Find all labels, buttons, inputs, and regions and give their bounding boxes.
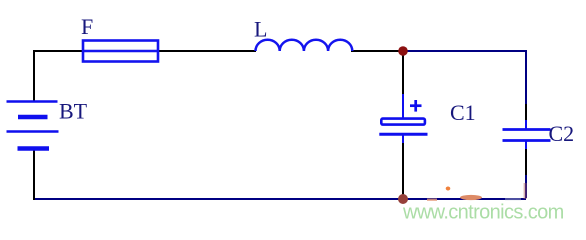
wire C2 to bottom-right corner [525, 149, 527, 177]
capacitor C1 (electrolytic) [379, 100, 427, 134]
wire C1 bottom lead (blue) [402, 135, 404, 145]
wire C1 to node B [402, 143, 404, 199]
wire C2 top lead [525, 120, 527, 129]
wire node A down to C1 [402, 53, 404, 96]
svg-text:BT: BT [59, 99, 88, 124]
wire C1 top lead (blue) [402, 94, 404, 118]
fuse F [82, 41, 159, 62]
wire top-left horizontal [34, 51, 82, 101]
artifact smudges [427, 183, 527, 201]
battery BT [7, 102, 59, 149]
wire right vertical to C2 [525, 104, 527, 122]
svg-text:C1: C1 [450, 100, 476, 125]
wire inductor to node A [351, 50, 403, 52]
svg-text:L: L [254, 17, 267, 42]
wire C2 bottom lead [525, 140, 527, 151]
inductor L [256, 40, 353, 51]
svg-text:www.cntronics.com: www.cntronics.com [402, 202, 564, 224]
svg-text:C2: C2 [549, 121, 575, 146]
node A junction dot [398, 46, 408, 56]
wire bottom horizontal (navy) [34, 198, 526, 200]
wire battery bottom vertical [33, 150, 35, 200]
wire node A to top-right corner (navy) [404, 51, 526, 106]
node B junction dot [398, 194, 408, 204]
capacitor C2 [503, 130, 551, 141]
wire bottom-right vertical (navy) [525, 175, 527, 198]
wire fuse to inductor [159, 50, 256, 52]
svg-text:F: F [81, 14, 93, 39]
